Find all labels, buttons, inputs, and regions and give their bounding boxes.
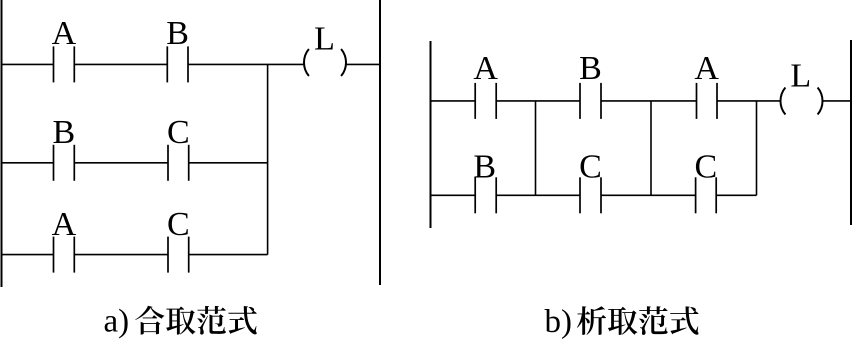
contact B (rung 1, circuit a) [166, 15, 189, 82]
svg-text:B: B [579, 50, 602, 87]
contact A (rung 1 first, circuit b) [473, 50, 498, 119]
contact C (rung 3, circuit a) [167, 206, 190, 273]
svg-text:L: L [314, 21, 335, 58]
left power rail (circuit b) [430, 41, 432, 228]
svg-text:A: A [52, 15, 77, 52]
wire rung 2 segment B to C (circuit b) [496, 194, 580, 196]
contact B (rung 2, circuit a) [53, 114, 76, 181]
caption text 析取范式 [577, 306, 699, 335]
coil L (circuit a) [304, 21, 346, 77]
contact C (rung 2 second, circuit b) [695, 149, 718, 214]
svg-text:A: A [52, 206, 77, 243]
wire rung 1 to coil (circuit b) [717, 100, 781, 102]
wire rung 3 middle segment (circuit a) [74, 254, 168, 256]
wire coil to right rail (circuit a) [346, 63, 381, 65]
wire coil to right rail (circuit b) [822, 100, 851, 102]
wire rung 1 segment B to A (circuit b) [601, 100, 697, 102]
left power rail (circuit a) [1, 0, 3, 287]
svg-text:B: B [473, 149, 496, 186]
svg-text:b): b) [545, 304, 573, 339]
wire rung 1 segment A to B (circuit b) [496, 100, 580, 102]
wire rung 2 middle segment (circuit a) [74, 162, 168, 164]
wire rung 3 left segment (circuit a) [2, 254, 54, 256]
contact C (rung 2 first, circuit b) [579, 149, 602, 214]
svg-text:a): a) [104, 303, 130, 339]
wire rung 1 middle segment (circuit a) [74, 63, 167, 65]
svg-text:B: B [53, 114, 76, 151]
contact A (rung 1 second, circuit b) [694, 50, 719, 119]
wire rung 1 left segment (circuit a) [2, 63, 54, 65]
contact A (rung 1, circuit a) [52, 15, 77, 82]
contact C (rung 2, circuit a) [167, 114, 190, 181]
wire rung 1 left segment (circuit b) [431, 100, 476, 102]
junction vertical wire joining rungs (circuit a) [267, 64, 269, 254]
wire rung 2 right segment (circuit b) [716, 194, 756, 196]
contact A (rung 3, circuit a) [52, 206, 77, 273]
wire rung 1 to coil (circuit a) [188, 63, 305, 65]
svg-text:C: C [167, 114, 190, 151]
wire rung 2 to junction (circuit a) [189, 162, 268, 164]
svg-text:A: A [694, 50, 719, 87]
wire rung 2 left segment (circuit b) [431, 194, 476, 196]
svg-text:C: C [579, 149, 602, 186]
contact B (rung 1, circuit b) [579, 50, 602, 119]
wire rung 3 to junction (circuit a) [189, 254, 268, 256]
svg-text:L: L [790, 58, 811, 95]
wire rung 2 left segment (circuit a) [2, 162, 54, 164]
svg-text:A: A [473, 50, 498, 87]
wire rung 2 segment C to C (circuit b) [601, 194, 696, 196]
svg-text:B: B [166, 15, 189, 52]
junction vertical wire 3 (circuit b) [756, 101, 758, 195]
right power rail (circuit a) [379, 0, 381, 285]
junction vertical wire 2 (circuit b) [650, 101, 652, 195]
svg-text:C: C [167, 206, 190, 243]
junction vertical wire 1 (circuit b) [535, 101, 537, 195]
coil L (circuit b) [780, 58, 822, 115]
caption text 合取范式 [135, 306, 256, 335]
contact B (rung 2, circuit b) [473, 149, 496, 214]
svg-text:C: C [695, 149, 718, 186]
right power rail (circuit b) [850, 40, 852, 225]
